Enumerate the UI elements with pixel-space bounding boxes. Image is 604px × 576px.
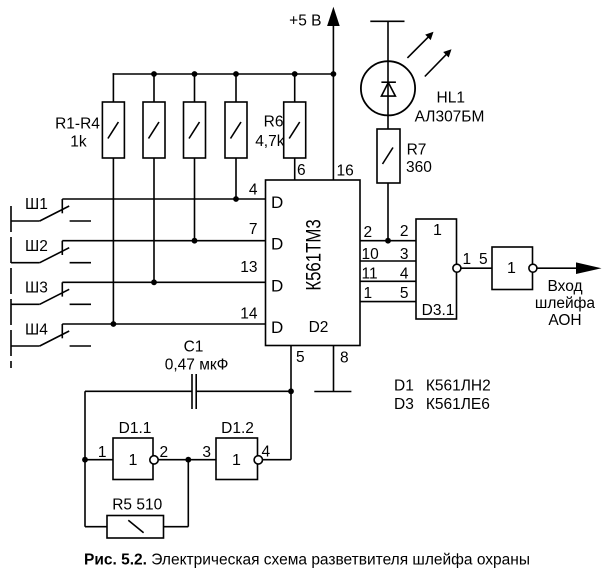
wire D3.1 out to gate2 (461, 267, 492, 269)
switch Ш4 (11, 345, 40, 347)
gate D3.2 box (492, 247, 533, 290)
node +5V arrow (332, 24, 334, 74)
svg-text:C1: C1 (184, 339, 204, 356)
svg-text:5: 5 (400, 285, 409, 302)
svg-text:1k: 1k (70, 133, 87, 150)
wire D1.2 out (262, 459, 291, 461)
svg-text:+5 В: +5 В (289, 13, 321, 30)
svg-text:1: 1 (463, 251, 472, 268)
junction row2 R3 (192, 238, 198, 244)
wire LED vertical (387, 21, 389, 129)
gate D3.1 box (416, 219, 457, 319)
svg-text:4: 4 (262, 444, 271, 461)
svg-text:11: 11 (362, 266, 378, 283)
wire pin2 row D2 to D3.1 (360, 240, 416, 242)
svg-text:R5 510: R5 510 (112, 496, 162, 513)
dashed loop line (10, 206, 12, 368)
svg-text:3: 3 (400, 246, 409, 263)
svg-text:1: 1 (129, 452, 138, 469)
svg-text:8: 8 (340, 349, 349, 366)
svg-text:Ш2: Ш2 (25, 238, 48, 255)
LED light arrow 1 (407, 35, 430, 58)
gate D3.2 output bubble (529, 264, 537, 272)
svg-text:D: D (271, 318, 283, 337)
junction row4 R1 (111, 321, 117, 327)
svg-text:14: 14 (240, 306, 258, 323)
LED HL1 circle (361, 61, 415, 115)
wire R3 bottom (194, 158, 196, 241)
junction row1 R4 (233, 196, 239, 202)
inverter D1.1 box (113, 438, 153, 480)
inverter D1.2 box (216, 438, 258, 480)
junction bus R6 (292, 71, 298, 77)
wire pin1 row (360, 301, 416, 303)
gate D3.1 output bubble (453, 264, 461, 272)
inverter D1.2 bubble (254, 456, 262, 464)
wire R1 bottom (112, 158, 114, 324)
LED diode triangle (381, 83, 395, 97)
svg-text:шлейфа: шлейфа (535, 295, 596, 312)
svg-text:D3.1: D3.1 (422, 302, 455, 319)
capacitor C1 right plate (195, 374, 197, 409)
LED top terminal bar (370, 20, 404, 22)
wire R2 bottom (153, 158, 155, 282)
wire C1 left (85, 390, 192, 392)
svg-text:D1.2: D1.2 (221, 420, 254, 437)
svg-text:16: 16 (337, 163, 354, 180)
wire pin10 row (360, 260, 416, 262)
switch Ш1 (11, 220, 40, 222)
svg-text:К561ТМ3: К561ТМ3 (303, 219, 326, 290)
wire row4 Ш4 to pin14 (62, 323, 265, 325)
LED diode cathode bar (381, 81, 396, 83)
svg-text:D1.1: D1.1 (119, 420, 152, 437)
svg-text:4,7k: 4,7k (255, 133, 285, 150)
junction osc mid (185, 457, 191, 463)
svg-text:7: 7 (249, 221, 258, 238)
wire R2 top (153, 74, 155, 102)
capacitor C1 left plate (191, 374, 193, 409)
svg-text:1: 1 (364, 285, 373, 302)
svg-text:D2: D2 (309, 319, 329, 336)
svg-text:3: 3 (202, 444, 211, 461)
IC D2 box (266, 180, 361, 346)
junction bus R4 (233, 71, 239, 77)
wire +5V bus (113, 73, 335, 75)
resistor R1 (102, 102, 124, 158)
svg-text:4: 4 (400, 266, 409, 283)
svg-text:2: 2 (364, 224, 373, 241)
resistor R5 (107, 516, 164, 539)
ground bar (314, 391, 351, 393)
inverter D1.1 bubble (150, 456, 158, 464)
svg-text:1: 1 (232, 452, 241, 469)
svg-text:1: 1 (98, 444, 107, 461)
wire pin8 down (333, 346, 335, 392)
switch Ш3 (11, 303, 40, 305)
LED light arrow 2 (425, 52, 449, 76)
wire pin11 row (360, 280, 416, 282)
junction C1 pin5 (288, 388, 294, 394)
wire R1 top (112, 73, 114, 102)
wire R6 top (294, 74, 296, 102)
svg-text:5: 5 (479, 251, 488, 268)
svg-text:R6: R6 (264, 114, 284, 131)
wire D1.1 input (85, 459, 113, 461)
svg-text:1: 1 (507, 260, 516, 277)
svg-text:13: 13 (240, 259, 257, 276)
wire R3 top (194, 74, 196, 102)
resistor R6 (284, 102, 306, 158)
svg-text:Вход: Вход (547, 278, 582, 295)
wire pin5 down (290, 346, 292, 460)
junction bus R2 (151, 71, 157, 77)
wire left vertical (84, 391, 86, 526)
svg-text:1: 1 (433, 222, 442, 239)
wire D1.1 out to D1.2 (158, 459, 216, 461)
junction bus +5V (331, 71, 337, 77)
svg-text:Рис. 5.2. Электрическая схема: Рис. 5.2. Электрическая схема разветвите… (84, 552, 530, 569)
junction R7 pin2 (385, 238, 391, 244)
svg-text:HL1: HL1 (437, 89, 465, 106)
svg-text:0,47 мкФ: 0,47 мкФ (165, 356, 229, 373)
wire mid junction down (187, 460, 189, 527)
junction osc left (82, 457, 88, 463)
svg-text:4: 4 (249, 182, 258, 199)
svg-text:D: D (271, 276, 283, 295)
wire C1 right (196, 390, 291, 392)
svg-text:D3 К561ЛЕ6: D3 К561ЛЕ6 (394, 396, 490, 413)
svg-text:D: D (271, 193, 283, 212)
svg-text:2: 2 (160, 444, 169, 461)
svg-text:Ш4: Ш4 (25, 321, 48, 338)
wire row2 Ш2 to pin7 (62, 240, 265, 242)
wire R7 to pin2 row (387, 183, 389, 241)
svg-text:360: 360 (406, 159, 432, 176)
resistor R3 (184, 102, 206, 158)
svg-text:5: 5 (296, 349, 305, 366)
svg-text:R7: R7 (407, 141, 427, 158)
wire row1 Ш1 to pin4 (62, 198, 265, 200)
wire row3 Ш3 to pin13 (62, 281, 265, 283)
svg-text:Ш3: Ш3 (25, 280, 48, 297)
resistor R4 (225, 102, 247, 158)
output arrowhead (576, 262, 602, 274)
resistor R2 (143, 102, 165, 158)
wire R4 top (235, 74, 237, 102)
wire output to arrow (537, 267, 577, 269)
svg-text:D1 К561ЛН2: D1 К561ЛН2 (394, 378, 491, 395)
wire R5 right (164, 526, 189, 528)
wire R4 bottom (235, 158, 237, 199)
resistor R7 (377, 129, 400, 183)
wire R5 left (85, 526, 107, 528)
svg-text:6: 6 (297, 162, 306, 179)
wire R6 to pin 6 (294, 158, 296, 180)
junction bus R3 (192, 71, 198, 77)
svg-text:10: 10 (362, 246, 380, 263)
switch Ш2 (11, 262, 40, 264)
svg-text:D: D (271, 235, 283, 254)
junction row3 R2 (151, 279, 157, 285)
svg-text:АОН: АОН (548, 312, 581, 329)
svg-text:АЛ307БМ: АЛ307БМ (415, 109, 485, 126)
wire +5V to pin 16 (332, 74, 334, 180)
svg-text:R1-R4: R1-R4 (55, 116, 100, 133)
svg-text:2: 2 (400, 223, 409, 240)
svg-text:Ш1: Ш1 (25, 196, 48, 213)
